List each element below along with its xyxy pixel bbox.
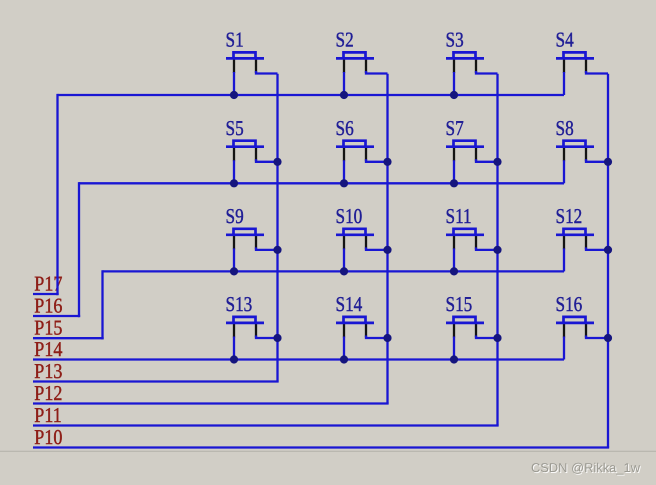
svg-text:S4: S4 xyxy=(556,28,575,52)
wire S3 right pin to column 3 xyxy=(476,71,498,74)
wire row 3 horizontal (net P15) xyxy=(103,270,565,272)
svg-text:S9: S9 xyxy=(226,204,244,228)
svg-text:S10: S10 xyxy=(336,204,363,228)
junction column 2 / S10 right pin xyxy=(383,246,391,254)
wire S10 right pin to column 2 xyxy=(366,247,388,250)
pushbutton S10 xyxy=(336,229,374,250)
svg-text:S14: S14 xyxy=(336,292,363,316)
junction column 1 / S13 right pin xyxy=(273,334,281,342)
wire S5 left pin to row 2 xyxy=(233,160,235,183)
wire S9 left pin to row 3 xyxy=(233,248,235,271)
svg-text:P10: P10 xyxy=(34,425,62,449)
wire column 4 vertical (net P10) xyxy=(607,74,609,448)
svg-text:S16: S16 xyxy=(556,292,583,316)
pushbutton S3 xyxy=(446,52,484,73)
junction row 4 / S15 left pin xyxy=(450,355,458,363)
junction column 2 / S14 right pin xyxy=(383,334,391,342)
svg-text:S6: S6 xyxy=(336,116,354,140)
svg-text:S15: S15 xyxy=(446,292,473,316)
wire P17 stub horizontal xyxy=(33,293,58,295)
junction column 4 / S8 right pin xyxy=(604,158,612,166)
wire P17 vertical riser xyxy=(56,94,58,295)
pushbutton S13 xyxy=(226,317,264,338)
node corner P17 xyxy=(56,293,58,295)
junction row 2 / S6 left pin xyxy=(340,179,348,187)
wire S15 left pin to row 4 xyxy=(453,337,455,360)
wire S1 right pin to column 1 xyxy=(256,71,278,74)
wire S12 right pin to column 4 xyxy=(586,247,608,250)
svg-text:P11: P11 xyxy=(34,403,61,427)
svg-text:S7: S7 xyxy=(446,116,464,140)
pushbutton S6 xyxy=(336,141,374,162)
wire S8 right pin to column 4 xyxy=(586,159,608,162)
wire S13 right pin to column 1 xyxy=(256,336,278,339)
junction column 2 / S6 right pin xyxy=(383,158,391,166)
wire S3 left pin to row 1 xyxy=(453,72,455,95)
wire S5 right pin to column 1 xyxy=(256,159,278,162)
junction row 3 / S11 left pin xyxy=(450,267,458,275)
svg-text:S8: S8 xyxy=(556,116,574,140)
wire S6 right pin to column 2 xyxy=(366,159,388,162)
junction column 3 / S15 right pin xyxy=(493,334,501,342)
svg-text:P13: P13 xyxy=(34,359,62,383)
junction column 1 / S9 right pin xyxy=(273,246,281,254)
pushbutton S14 xyxy=(336,317,374,338)
junction row 2 / S7 left pin xyxy=(450,179,458,187)
separator line xyxy=(0,451,656,452)
node corner P16 xyxy=(78,315,80,317)
wire S8 left pin to row 2 xyxy=(563,160,565,183)
junction row 1 / S1 left pin xyxy=(230,91,238,99)
pushbutton S15 xyxy=(446,317,484,338)
junction column 4 / S16 right pin xyxy=(604,334,612,342)
wire P15 stub horizontal xyxy=(33,337,103,339)
pushbutton S12 xyxy=(556,229,594,250)
wire S13 left pin to row 4 xyxy=(233,337,235,360)
junction column 1 / S5 right pin xyxy=(273,158,281,166)
junction row 4 / S14 left pin xyxy=(340,355,348,363)
junction row 4 / S13 left pin xyxy=(230,355,238,363)
wire S4 right pin to column 4 xyxy=(586,71,608,74)
pushbutton S8 xyxy=(556,141,594,162)
pushbutton S2 xyxy=(336,52,374,73)
wire S2 left pin to row 1 xyxy=(343,72,345,95)
pushbutton S7 xyxy=(446,141,484,162)
wire S14 right pin to column 2 xyxy=(366,336,388,339)
wire P15 vertical riser xyxy=(101,270,103,339)
wire S11 right pin to column 3 xyxy=(476,247,498,250)
wire S1 left pin to row 1 xyxy=(233,72,235,95)
wire column 1 vertical (net P13) xyxy=(276,74,278,382)
wire S15 right pin to column 3 xyxy=(476,336,498,339)
wire P16 vertical riser xyxy=(78,182,80,317)
junction row 1 / S2 left pin xyxy=(340,91,348,99)
svg-text:S5: S5 xyxy=(226,116,244,140)
wire row 1 horizontal (net P17) xyxy=(58,94,565,96)
node corner P15 xyxy=(101,337,103,339)
svg-text:S3: S3 xyxy=(446,28,464,52)
svg-text:S2: S2 xyxy=(336,28,354,52)
wire row 4 horizontal (net P14) xyxy=(33,358,564,360)
junction column 4 / S12 right pin xyxy=(604,246,612,254)
wire column 2 vertical (net P12) xyxy=(386,74,388,404)
wire S2 right pin to column 2 xyxy=(366,71,388,74)
wire P12 stub horizontal xyxy=(33,402,389,404)
wire P10 stub horizontal xyxy=(33,446,609,448)
junction row 1 / S3 left pin xyxy=(450,91,458,99)
junction row 3 / S10 left pin xyxy=(340,267,348,275)
wire S10 left pin to row 3 xyxy=(343,248,345,271)
svg-text:P14: P14 xyxy=(34,337,63,361)
pushbutton S5 xyxy=(226,141,264,162)
wire S12 left pin to row 3 xyxy=(563,248,565,271)
svg-text:P16: P16 xyxy=(34,293,62,317)
junction row 3 / S9 left pin xyxy=(230,267,238,275)
junction column 3 / S11 right pin xyxy=(493,246,501,254)
wire S16 left pin to row 4 xyxy=(563,337,565,360)
svg-text:P12: P12 xyxy=(34,381,62,405)
wire P11 stub horizontal xyxy=(33,424,499,426)
wire S16 right pin to column 4 xyxy=(586,336,608,339)
pushbutton S11 xyxy=(446,229,484,250)
wire S7 left pin to row 2 xyxy=(453,160,455,183)
svg-text:S13: S13 xyxy=(226,292,253,316)
svg-text:S11: S11 xyxy=(446,204,472,228)
junction row 2 / S5 left pin xyxy=(230,179,238,187)
pushbutton S4 xyxy=(556,52,594,73)
wire row 2 horizontal (net P16) xyxy=(79,182,564,184)
svg-text:S1: S1 xyxy=(226,28,244,52)
pushbutton S16 xyxy=(556,317,594,338)
svg-text:S12: S12 xyxy=(556,204,583,228)
wire S9 right pin to column 1 xyxy=(256,247,278,250)
wire S4 left pin to row 1 xyxy=(563,72,565,95)
wire S11 left pin to row 3 xyxy=(453,248,455,271)
wire column 3 vertical (net P11) xyxy=(496,74,498,426)
pushbutton S9 xyxy=(226,229,264,250)
pushbutton S1 xyxy=(226,52,264,73)
wire P13 stub horizontal xyxy=(33,380,279,382)
wire S14 left pin to row 4 xyxy=(343,337,345,360)
svg-text:CSDN @Rikka_1w: CSDN @Rikka_1w xyxy=(531,460,641,475)
junction column 3 / S7 right pin xyxy=(493,158,501,166)
wire P16 stub horizontal xyxy=(33,315,79,317)
wire S7 right pin to column 3 xyxy=(476,159,498,162)
wire S6 left pin to row 2 xyxy=(343,160,345,183)
